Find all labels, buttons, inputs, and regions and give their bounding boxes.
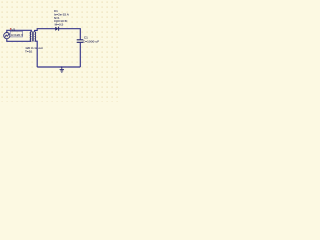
wire: capacitor down to bottom rail: [79, 43, 81, 67]
svg-text:M=0.5: M=0.5: [55, 23, 64, 27]
wire: bottom rail: [37, 66, 80, 68]
wire: diode to top-right corner, down to capacitor: [59, 29, 80, 40]
wire: transformer secondary bottom down through label: [35, 41, 38, 67]
wire: V1 top stub and top-left rail to transformer primary: [7, 30, 32, 32]
diode D1: [55, 27, 58, 31]
transformer core: [32, 31, 35, 41]
wire: V1 bottom stub and bottom-left rail to transformer primary: [7, 39, 32, 42]
diode D1 property text: [54, 9, 70, 27]
svg-text:V1: V1: [11, 28, 15, 32]
schematic background: [0, 0, 120, 102]
ground: [60, 67, 64, 72]
transformer TR primary coil: [30, 32, 31, 41]
junction node at ground: [61, 66, 63, 68]
svg-text:U=120 V: U=120 V: [11, 33, 24, 37]
transformer TR secondary coil: [35, 32, 36, 41]
value box U=120 V: [10, 31, 22, 37]
svg-text:C=1000 uF: C=1000 uF: [83, 40, 99, 44]
voltage source V1 (AC): [4, 33, 10, 39]
capacitor C1 plates: [77, 40, 84, 43]
wire: secondary top to diode: [35, 29, 56, 32]
red plus polarity mark: [10, 28, 11, 30]
svg-text:T=10: T=10: [25, 50, 32, 54]
